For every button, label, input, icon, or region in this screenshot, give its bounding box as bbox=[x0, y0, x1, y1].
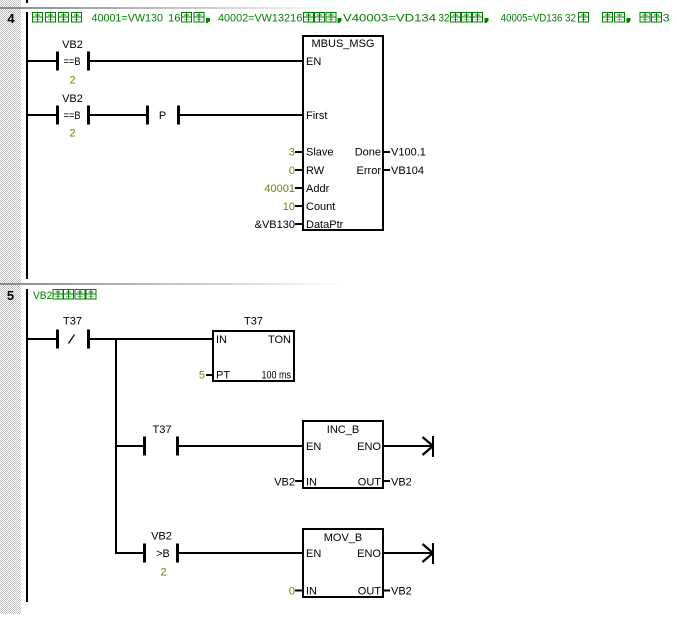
network 5 left power rail bbox=[26, 289, 28, 602]
pin Count with value 10 bbox=[283, 201, 336, 213]
svg-text:5: 5 bbox=[199, 370, 205, 382]
pin OUT output VB2 of INC_B bbox=[384, 477, 412, 489]
pin ENO of MOV_B bbox=[357, 548, 381, 560]
network separator above network 5 bbox=[0, 283, 345, 285]
type label TON bbox=[268, 334, 291, 346]
network 4 comment text bbox=[33, 13, 670, 25]
pin IN of MOV_B bbox=[306, 586, 317, 598]
svg-text:32: 32 bbox=[439, 13, 450, 25]
pin OUT of MOV_B bbox=[358, 586, 382, 598]
svg-text:VB2: VB2 bbox=[391, 586, 412, 598]
wire net5 rung1 contact T37 to TON IN bbox=[90, 338, 212, 340]
wire branch to contact VB2 sub-rung2 bbox=[117, 552, 143, 554]
svg-text:TON: TON bbox=[268, 334, 291, 346]
svg-text:IN: IN bbox=[306, 477, 317, 489]
svg-text:T37: T37 bbox=[153, 424, 172, 436]
svg-text:DataPtr: DataPtr bbox=[306, 219, 344, 231]
network separator above network 4 bbox=[0, 7, 345, 9]
svg-text:32: 32 bbox=[565, 13, 576, 25]
wire rung1 rail to contact VB2 bbox=[28, 60, 56, 62]
svg-text:Slave: Slave bbox=[306, 147, 334, 159]
wire rung1 contact to MBUS_MSG EN bbox=[90, 60, 302, 62]
left margin hatched gutter bbox=[0, 0, 21, 614]
pin First bbox=[306, 110, 327, 122]
wire rung2 rail to contact VB2 bbox=[28, 114, 56, 116]
network 3 left power rail stub bbox=[26, 0, 28, 3]
pin DataPtr with value &VB130 bbox=[255, 219, 344, 231]
svg-text:Error: Error bbox=[357, 165, 382, 177]
svg-text:==B: ==B bbox=[64, 56, 81, 68]
svg-text:IN: IN bbox=[306, 586, 317, 598]
svg-text:V100.1: V100.1 bbox=[391, 147, 426, 159]
wire contact VB2 to MOV_B EN bbox=[179, 552, 302, 554]
svg-text:2: 2 bbox=[69, 128, 75, 140]
svg-text:==B: ==B bbox=[64, 110, 81, 122]
contact VB2 ==B rung2 bbox=[56, 93, 90, 125]
wire INC_B ENO to open arrow bbox=[384, 445, 432, 447]
wire contact T37 to INC_B EN bbox=[179, 445, 302, 447]
network 5 comment text VB2 counter trigger bbox=[33, 290, 96, 303]
svg-text:VB104: VB104 bbox=[391, 165, 424, 177]
pin IN value 0 of MOV_B bbox=[289, 586, 303, 598]
function block MBUS_MSG bbox=[303, 36, 383, 230]
svg-text:VB2: VB2 bbox=[274, 477, 295, 489]
svg-text:ENO: ENO bbox=[357, 548, 381, 560]
svg-text:OUT: OUT bbox=[358, 586, 382, 598]
pin IN of TON bbox=[216, 334, 227, 346]
svg-text:40001: 40001 bbox=[264, 183, 295, 195]
svg-text:10: 10 bbox=[283, 201, 295, 213]
svg-text:VB2: VB2 bbox=[391, 477, 412, 489]
svg-text:P: P bbox=[159, 110, 166, 122]
svg-text:T37: T37 bbox=[244, 316, 263, 328]
branch junction vertical wire bbox=[115, 338, 117, 554]
open branch arrow after MOV_B bbox=[423, 543, 435, 564]
svg-text:EN: EN bbox=[306, 56, 321, 68]
svg-text:First: First bbox=[306, 110, 327, 122]
contact P positive edge rung2 bbox=[146, 106, 180, 125]
value 2 of contact VB2 rung1 bbox=[69, 75, 75, 87]
wire branch to contact T37 sub-rung1 bbox=[117, 445, 143, 447]
pin Done output to V100.1 bbox=[355, 147, 426, 159]
pin OUT of INC_B bbox=[358, 477, 382, 489]
svg-text:RW: RW bbox=[306, 165, 325, 177]
svg-text:0: 0 bbox=[289, 165, 295, 177]
svg-text:16: 16 bbox=[290, 13, 303, 25]
svg-text:EN: EN bbox=[306, 548, 321, 560]
wire rung2 contact P to MBUS_MSG First bbox=[180, 114, 302, 116]
pin RW with value 0 bbox=[289, 165, 325, 177]
svg-text:16: 16 bbox=[168, 13, 181, 25]
svg-text:T37: T37 bbox=[63, 316, 82, 328]
svg-text:3: 3 bbox=[289, 147, 295, 159]
wire net5 rung1 rail to contact T37 bbox=[28, 338, 56, 340]
svg-text:Count: Count bbox=[306, 201, 335, 213]
pin OUT output VB2 of MOV_B bbox=[384, 586, 412, 598]
pin EN of INC_B bbox=[306, 441, 321, 453]
svg-text:VB2: VB2 bbox=[62, 93, 83, 105]
network 5 number label bbox=[7, 288, 14, 303]
function block MOV_B bbox=[303, 529, 383, 597]
svg-text:OUT: OUT bbox=[358, 477, 382, 489]
pin IN value VB2 of INC_B bbox=[274, 477, 303, 489]
network 4 number label bbox=[7, 11, 15, 26]
svg-text:V40003=VD134: V40003=VD134 bbox=[343, 13, 436, 25]
svg-text:MBUS_MSG: MBUS_MSG bbox=[312, 38, 375, 50]
svg-text:40005=VD136: 40005=VD136 bbox=[501, 13, 563, 25]
pin PT value 5 bbox=[199, 370, 213, 382]
pin ENO of INC_B bbox=[357, 441, 381, 453]
pin Error output to VB104 bbox=[357, 165, 424, 177]
network 4 left power rail bbox=[26, 12, 28, 279]
contact VB2 ==B rung1 bbox=[56, 39, 90, 71]
svg-text:40002=VW132: 40002=VW132 bbox=[218, 13, 290, 25]
svg-text:ENO: ENO bbox=[357, 441, 381, 453]
function block INC_B bbox=[303, 421, 383, 488]
svg-text:Done: Done bbox=[355, 147, 381, 159]
wire MOV_B ENO to open arrow bbox=[384, 552, 432, 554]
timer block TON with operand label T37 bbox=[213, 316, 294, 382]
pin EN bbox=[306, 56, 321, 68]
contact T37 normally-closed bbox=[56, 316, 90, 349]
pin Addr with value 40001 bbox=[264, 183, 329, 195]
value 2 of contact VB2 sub-rung2 bbox=[160, 567, 166, 579]
pin IN of INC_B bbox=[306, 477, 317, 489]
pin Slave with value 3 bbox=[289, 147, 334, 159]
svg-text:MOV_B: MOV_B bbox=[324, 532, 363, 544]
svg-text:2: 2 bbox=[160, 567, 166, 579]
wire rung2 contact VB2 to contact P bbox=[90, 114, 146, 116]
svg-text:3: 3 bbox=[663, 13, 670, 25]
pin PT of TON bbox=[216, 370, 230, 382]
svg-text:2: 2 bbox=[69, 75, 75, 87]
svg-text:40001=VW130: 40001=VW130 bbox=[92, 13, 164, 25]
svg-text:IN: IN bbox=[216, 334, 227, 346]
svg-text:VB2: VB2 bbox=[33, 290, 52, 302]
svg-text:100 ms: 100 ms bbox=[262, 370, 292, 382]
svg-text:EN: EN bbox=[306, 441, 321, 453]
contact T37 sub-rung1 bbox=[143, 424, 179, 456]
time base label 100 ms bbox=[262, 370, 292, 382]
svg-text:4: 4 bbox=[7, 11, 15, 26]
svg-text:VB2: VB2 bbox=[62, 39, 83, 51]
pin EN of MOV_B bbox=[306, 548, 321, 560]
svg-text:VB2: VB2 bbox=[151, 531, 172, 543]
open branch arrow after INC_B bbox=[423, 436, 435, 457]
svg-text:&VB130: &VB130 bbox=[255, 219, 295, 231]
svg-text:INC_B: INC_B bbox=[327, 424, 359, 436]
svg-text:>B: >B bbox=[156, 548, 170, 560]
svg-text:Addr: Addr bbox=[306, 183, 330, 195]
svg-text:5: 5 bbox=[7, 288, 14, 303]
contact VB2 greater-than-B sub-rung2 bbox=[143, 531, 179, 563]
svg-text:0: 0 bbox=[289, 586, 295, 598]
svg-text:PT: PT bbox=[216, 370, 230, 382]
value 2 of contact VB2 rung2 bbox=[69, 128, 75, 140]
